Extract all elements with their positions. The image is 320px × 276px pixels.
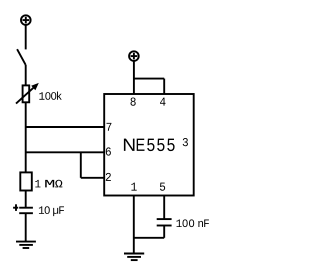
wire pin 1 to ground	[133, 196, 135, 254]
wire switch to potentiometer	[25, 65, 27, 86]
pin 4	[160, 98, 166, 106]
wire pin 6	[26, 151, 105, 153]
capacitor C1 plus sign	[13, 204, 18, 211]
IC U1 NE555 body	[104, 94, 194, 196]
wire pin 5 to capacitor	[163, 196, 165, 219]
wire pot to resistor (left rail)	[25, 102, 27, 172]
wire junction 6-2 vertical	[80, 152, 82, 178]
pin 8	[131, 98, 136, 106]
wire pin 4 vertical	[163, 79, 165, 94]
pin 3	[183, 138, 188, 146]
label 100 nF	[177, 219, 209, 227]
pin 5	[160, 183, 165, 191]
wire V1 to switch	[25, 25, 27, 50]
wire pin 2	[81, 177, 105, 179]
wire capacitor to ground	[25, 213, 27, 241]
ground GND2	[124, 254, 144, 261]
capacitor C1 10 µF plates	[19, 208, 33, 214]
wire capacitor C2 return	[134, 226, 164, 238]
switch S1 blade	[17, 49, 26, 65]
label NE555	[124, 139, 175, 151]
capacitor C2 100 nF plates	[157, 219, 172, 225]
power supply V1 (+)	[21, 15, 31, 25]
wire resistor to capacitor	[25, 191, 27, 208]
pin 1	[131, 183, 136, 191]
label 10 µF	[39, 206, 64, 216]
pin 7	[107, 123, 112, 131]
potentiometer 100k body	[23, 85, 30, 102]
label 100k	[39, 91, 61, 99]
wire branch to pin 4	[134, 78, 164, 80]
wire pin 7	[26, 126, 105, 128]
power supply V2 (+)	[129, 51, 139, 61]
wire V2 to pin 8	[133, 61, 135, 94]
potentiometer 100k arrow	[16, 83, 39, 104]
pin 2	[106, 173, 111, 181]
pin 6	[106, 147, 111, 155]
label 1 MΩ	[35, 180, 62, 188]
ground GND1	[16, 242, 36, 248]
resistor 1 MΩ body	[20, 172, 32, 190]
